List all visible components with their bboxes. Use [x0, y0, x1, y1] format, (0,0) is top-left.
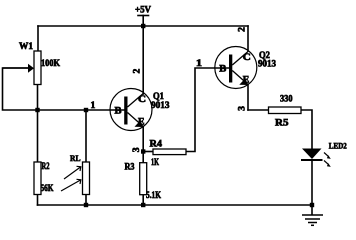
power +5V symbol	[138, 16, 149, 27]
svg-text:R5: R5	[275, 117, 289, 127]
wire node to R3	[142, 152, 144, 163]
wire Q2 emitter to R5	[248, 109, 269, 111]
wire W1 wiper loop	[3, 68, 38, 110]
node junction RL/ground rail	[84, 203, 88, 207]
svg-text:B: B	[115, 106, 122, 116]
wire Q1 collector to rail	[142, 26, 144, 94]
wire Q1 emitter down	[142, 127, 144, 152]
node junction RL/base	[84, 108, 88, 112]
potentiometer W1	[3, 51, 42, 85]
LED LED2	[301, 149, 331, 167]
resistor R3	[140, 163, 147, 195]
svg-text:3: 3	[131, 147, 141, 152]
transistor Q1	[110, 89, 152, 131]
svg-text:E: E	[243, 75, 250, 85]
wire R3 bottom	[142, 195, 144, 205]
node junction LED/ground rail	[310, 203, 314, 207]
ground	[302, 215, 323, 225]
svg-text:R3: R3	[125, 162, 135, 172]
wire LED to ground rail	[311, 161, 313, 205]
svg-text:1K: 1K	[151, 157, 159, 167]
wire Q1 base	[38, 109, 125, 111]
wire top +5V rail	[38, 25, 248, 27]
svg-text:+5V: +5V	[135, 5, 151, 15]
wire R4 to Q2 base	[186, 68, 228, 152]
node junction R3/ground rail	[141, 203, 145, 207]
svg-text:C: C	[243, 52, 251, 62]
svg-text:2: 2	[237, 27, 247, 32]
wire Q2 emitter down	[247, 85, 249, 111]
svg-text:R2: R2	[42, 161, 50, 171]
svg-text:330: 330	[280, 93, 293, 103]
svg-text:9013: 9013	[258, 58, 277, 68]
svg-text:E: E	[138, 117, 145, 127]
wire RL top to base node	[85, 110, 87, 162]
svg-text:B: B	[219, 64, 226, 74]
svg-text:1: 1	[91, 100, 96, 110]
photoresistor RL	[61, 162, 90, 195]
wire node to R4	[143, 151, 153, 153]
svg-text:C: C	[138, 94, 146, 104]
wire W1 bottom to R2	[37, 85, 39, 163]
svg-text:LED2: LED2	[329, 141, 347, 151]
svg-text:RL: RL	[70, 153, 81, 163]
svg-text:R4: R4	[150, 138, 163, 148]
svg-text:5.1K: 5.1K	[146, 190, 161, 200]
wire R5 to LED	[301, 110, 312, 148]
svg-text:2: 2	[131, 68, 141, 73]
wire RL bottom	[85, 195, 87, 206]
svg-text:1: 1	[196, 58, 203, 68]
transistor Q2	[215, 47, 257, 89]
node junction +5V rail	[141, 24, 145, 28]
node junction Q1 emitter/R4/R3	[141, 149, 145, 153]
wire bottom ground rail	[38, 204, 313, 206]
wire R2 bottom	[37, 195, 39, 206]
svg-text:3: 3	[237, 106, 247, 111]
svg-text:100K: 100K	[41, 58, 60, 68]
wire ground stub	[311, 205, 313, 215]
resistor R5	[269, 107, 302, 114]
wire W1 top to rail	[37, 26, 39, 51]
svg-text:56K: 56K	[41, 183, 54, 193]
svg-text:W1: W1	[19, 41, 34, 51]
node junction wiper/divider	[35, 108, 39, 112]
resistor R2	[34, 162, 41, 195]
resistor R4	[153, 149, 186, 155]
svg-text:9013: 9013	[151, 100, 170, 110]
wire Q2 collector to rail	[247, 26, 249, 51]
